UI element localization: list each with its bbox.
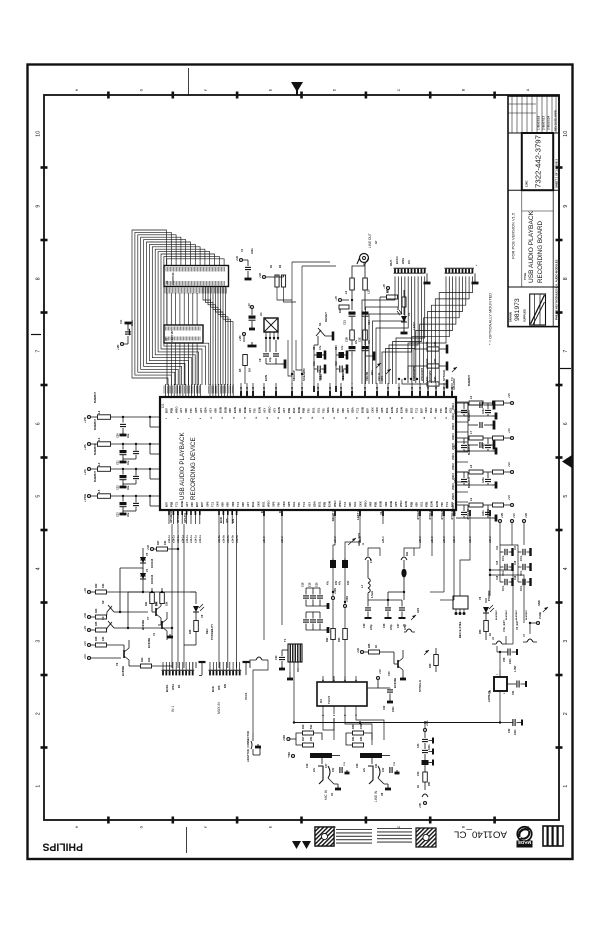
crystal load caps C8 C9 xyxy=(263,353,269,355)
svg-text:+VB1: +VB1 xyxy=(334,587,337,594)
svg-text:+V2: +V2 xyxy=(83,625,87,630)
regulator to bus xyxy=(499,691,501,723)
svg-text:C34: C34 xyxy=(417,771,420,776)
svg-text:X08: X08 xyxy=(214,408,218,413)
header X3 ground xyxy=(245,662,247,675)
terminal +VC bottom xyxy=(87,656,90,659)
svg-text:DG1: DG1 xyxy=(251,501,255,507)
svg-text:GP1: GP1 xyxy=(381,375,384,381)
svg-text:GPS/WS1: GPS/WS1 xyxy=(176,510,180,523)
svg-text:10: 10 xyxy=(563,131,569,137)
svg-text:+V0: +V0 xyxy=(507,393,511,398)
svg-text:100n: 100n xyxy=(251,248,254,254)
ferrite bead on clock xyxy=(401,569,406,578)
svg-text:DG1: DG1 xyxy=(385,407,389,413)
svg-text:100n: 100n xyxy=(482,443,485,449)
svg-text:L4: L4 xyxy=(97,462,101,466)
svg-text:C28: C28 xyxy=(383,623,386,628)
svg-text:*VB1: *VB1 xyxy=(288,751,291,757)
svg-text:VDD3: VDD3 xyxy=(451,423,455,430)
svg-text:+VB1: +VB1 xyxy=(283,734,286,741)
svg-text:C32: C32 xyxy=(383,705,386,710)
svg-text:100n: 100n xyxy=(521,555,523,561)
svg-text:1: 1 xyxy=(563,785,569,788)
svg-text:V5: V5 xyxy=(145,552,149,556)
svg-text:100n: 100n xyxy=(342,374,345,380)
svg-text:s1h-1s: s1h-1s xyxy=(168,534,171,543)
svg-text:DOB: DOB xyxy=(361,407,365,413)
wires DN DP to USB xyxy=(263,524,265,560)
svg-text:12h-16: 12h-16 xyxy=(290,386,294,395)
svg-text:12h-16: 12h-16 xyxy=(316,386,320,395)
svg-text:T1: T1 xyxy=(283,638,287,642)
svg-text:GP5: GP5 xyxy=(287,501,291,507)
svg-text:C48: C48 xyxy=(514,560,517,565)
svg-text:SCL: SCL xyxy=(292,501,296,507)
svg-text:SP1: SP1 xyxy=(371,370,374,375)
decoupling cap C11 at U3 left xyxy=(120,342,123,345)
terminal +VC with resistor R38 xyxy=(87,643,90,646)
output LC filter block 1 with inductor and caps xyxy=(456,402,468,404)
svg-text:CLK: CLK xyxy=(379,509,383,515)
IC U1 bottom single pins xyxy=(263,510,265,524)
line out coupling network xyxy=(352,263,364,279)
GPA_WS arrow label xyxy=(348,538,356,545)
svg-text:V4: V4 xyxy=(152,632,156,636)
svg-text:BLM2B07: BLM2B07 xyxy=(94,418,97,430)
svg-text:CKX: CKX xyxy=(370,407,374,413)
svg-text:SDA: SDA xyxy=(326,407,330,413)
svg-text:R51: R51 xyxy=(428,781,431,786)
svg-text:X08: X08 xyxy=(221,502,225,507)
svg-text:LEFT IN: LEFT IN xyxy=(356,509,360,520)
svg-text:C12: C12 xyxy=(335,361,338,366)
svg-text:BLM2B07: BLM2B07 xyxy=(526,609,528,620)
terminal +VD near crystal xyxy=(242,332,245,335)
svg-text:51K: 51K xyxy=(310,724,313,729)
title block revision table xyxy=(508,132,559,134)
svg-text:MUX IN: MUX IN xyxy=(217,702,221,714)
svg-text:P2B: P2B xyxy=(287,408,291,413)
svg-text:TC1: TC1 xyxy=(236,501,240,507)
svg-text:X08: X08 xyxy=(226,502,230,507)
svg-text:P2B: P2B xyxy=(302,408,306,413)
decoupling cap grid C44-C49 xyxy=(500,551,504,553)
switch S2 xyxy=(107,606,112,612)
svg-text:s1h-1s: s1h-1s xyxy=(199,534,202,543)
svg-text:A1Y: A1Y xyxy=(185,502,189,507)
net arrows SP1 GP1 xyxy=(376,363,381,368)
svg-text:12h-16: 12h-16 xyxy=(239,386,243,395)
wires crystal to U1 xyxy=(291,262,293,384)
centre marker top triangle xyxy=(291,82,303,92)
svg-text:R12: R12 xyxy=(426,341,429,346)
svg-text:+V0: +V0 xyxy=(378,669,382,674)
svg-text:Y06: Y06 xyxy=(440,502,444,507)
svg-text:7322-442-3797: 7322-442-3797 xyxy=(534,135,543,188)
terminals +VB1 near caps xyxy=(331,596,334,599)
svg-text:V7: V7 xyxy=(146,616,150,620)
svg-text:10K: 10K xyxy=(434,341,437,346)
output LC filter block 4 with inductor and caps xyxy=(456,504,468,506)
svg-text:12NC: 12NC xyxy=(525,180,529,187)
IC right side power decoupling caps xyxy=(467,401,469,403)
svg-text:L3: L3 xyxy=(97,437,101,441)
svg-text:TC1: TC1 xyxy=(175,501,179,507)
svg-text:WS: WS xyxy=(225,518,229,523)
svg-text:C20: C20 xyxy=(356,763,359,768)
IC U4 top pins xyxy=(322,676,324,682)
jumper J6 loop A xyxy=(368,548,380,556)
svg-text:A: A xyxy=(361,543,365,545)
svg-text:22K: 22K xyxy=(310,736,313,741)
wire transformer to bus xyxy=(293,680,295,723)
svg-text:1M: 1M xyxy=(248,368,252,372)
svg-text:100K: 100K xyxy=(360,723,363,729)
svg-text:100n: 100n xyxy=(320,374,323,380)
transistor V4 BC848B xyxy=(161,621,163,629)
voltage regulator U5 xyxy=(494,677,507,691)
instruction text block 2 rotated 180 xyxy=(377,828,412,830)
GND arrow label xyxy=(543,607,548,612)
zone ticks left edge xyxy=(41,166,48,169)
svg-text:B07: B07 xyxy=(165,408,169,413)
svg-text:12h-16: 12h-16 xyxy=(350,386,354,395)
grounds for cap column xyxy=(429,740,434,742)
svg-text:2: 2 xyxy=(563,712,569,715)
recycle logo stamp xyxy=(517,827,531,841)
svg-text:DOB: DOB xyxy=(223,407,227,413)
svg-text:A1Y: A1Y xyxy=(248,408,252,413)
svg-text:7: 7 xyxy=(563,350,569,353)
svg-text:R16: R16 xyxy=(302,724,305,729)
svg-text:1: 1 xyxy=(36,785,42,788)
title block separators xyxy=(508,189,559,191)
svg-text:R21: R21 xyxy=(352,736,355,741)
pull resistors R12 R13 R14 to ground xyxy=(420,348,427,350)
IC U1 top pin stubs cluster 2 xyxy=(209,384,211,397)
svg-text:GP5: GP5 xyxy=(380,407,384,413)
svg-text:WSO: WSO xyxy=(399,501,403,507)
svg-text:DN: DN xyxy=(260,509,264,513)
svg-text:DN: DN xyxy=(223,684,227,688)
svg-text:1 96/03/19: 1 96/03/19 xyxy=(537,115,541,130)
svg-text:G: G xyxy=(140,825,144,828)
svg-text:+VD: +VD xyxy=(525,513,528,518)
svg-text:R26: R26 xyxy=(429,663,432,668)
svg-text:MIC IN: MIC IN xyxy=(324,789,328,800)
svg-text:GP5: GP5 xyxy=(331,407,335,413)
svg-text:12h-16: 12h-16 xyxy=(426,386,430,395)
svg-text:TC1: TC1 xyxy=(343,501,347,507)
svg-text:U2: U2 xyxy=(165,280,169,284)
svg-text:WSO: WSO xyxy=(338,501,342,507)
resistor pair R1 R2 right of U2 xyxy=(262,275,265,278)
header X3 MUX IN xyxy=(209,662,211,670)
IC U2 bottom hash stubs xyxy=(164,288,166,294)
svg-text:47u: 47u xyxy=(341,345,344,350)
svg-text:EON: EON xyxy=(400,407,404,413)
svg-text:X08: X08 xyxy=(348,502,352,507)
svg-text:12h-16: 12h-16 xyxy=(339,386,343,395)
document number box 7322-442-3797 xyxy=(522,133,553,190)
caps C50 with ground xyxy=(507,649,509,656)
svg-text:5: 5 xyxy=(36,495,42,498)
svg-text:IN 1: IN 1 xyxy=(171,706,175,712)
svg-text:L2: L2 xyxy=(97,410,101,414)
svg-text:A1Y: A1Y xyxy=(263,408,267,413)
svg-text:A1Y: A1Y xyxy=(346,408,350,413)
svg-text:B07: B07 xyxy=(365,408,369,413)
svg-text:CKX: CKX xyxy=(424,407,428,413)
svg-text:+VD: +VD xyxy=(259,273,262,278)
svg-text:REC E-STEL: REC E-STEL xyxy=(458,621,462,638)
header X6 wires down to U1 xyxy=(408,276,446,383)
svg-text:+VDG: +VDG xyxy=(83,493,87,502)
svg-text:C27: C27 xyxy=(397,623,400,628)
LINE OUT jack X7 xyxy=(360,254,369,263)
svg-text:+VD: +VD xyxy=(116,345,120,350)
svg-text:TC1: TC1 xyxy=(210,501,214,507)
svg-text:L INT: L INT xyxy=(513,665,517,672)
svg-text:100n: 100n xyxy=(428,744,431,750)
svg-text:FOR PCB VERSION V1.5: FOR PCB VERSION V1.5 xyxy=(511,212,516,259)
svg-text:REC: REC xyxy=(205,628,209,634)
svg-text:DG1: DG1 xyxy=(261,501,265,507)
svg-text:C29: C29 xyxy=(363,623,366,628)
svg-text:C21: C21 xyxy=(375,763,378,768)
terminal +VB1 left of mic xyxy=(291,754,294,757)
svg-text:X08: X08 xyxy=(228,408,232,413)
svg-text:10u: 10u xyxy=(127,433,130,438)
svg-text:X7: X7 xyxy=(374,240,378,244)
svg-text:T05: T05 xyxy=(189,408,193,413)
svg-text:SUPPLIED: SUPPLIED xyxy=(523,309,527,322)
svg-text:EON: EON xyxy=(390,407,394,413)
svg-text:10u: 10u xyxy=(127,460,130,465)
svg-text:T05: T05 xyxy=(336,408,340,413)
svg-text:GP5: GP5 xyxy=(272,501,276,507)
svg-text:S2: S2 xyxy=(101,600,105,604)
svg-text:12h-16: 12h-16 xyxy=(418,386,422,395)
philips shield logo box xyxy=(530,294,546,325)
svg-text:R20: R20 xyxy=(352,724,355,729)
svg-text:BLM2B07: BLM2B07 xyxy=(468,409,471,421)
svg-text:L5: L5 xyxy=(97,489,101,493)
svg-text:SDA: SDA xyxy=(312,501,316,507)
svg-text:C10: C10 xyxy=(313,361,316,366)
svg-text:+VB: +VB xyxy=(501,513,504,518)
IC U2 latch 74HC574 xyxy=(164,266,229,287)
svg-text:10u: 10u xyxy=(127,485,130,490)
svg-text:BLM2B07: BLM2B07 xyxy=(506,609,508,620)
svg-text:47u: 47u xyxy=(327,580,330,585)
svg-text:AO1140_CL: AO1140_CL xyxy=(454,830,507,841)
resistor R44 1K2 xyxy=(129,665,140,667)
reset switch S1 xyxy=(316,330,321,336)
svg-text:DG1: DG1 xyxy=(429,407,433,413)
svg-text:VRF: VRF xyxy=(384,501,388,507)
svg-text:P2B: P2B xyxy=(374,502,378,507)
caps C18 C19 C22 column xyxy=(305,588,307,595)
svg-text:X08: X08 xyxy=(238,408,242,413)
svg-text:+V0: +V0 xyxy=(334,295,338,300)
svg-text:CKX: CKX xyxy=(282,501,286,507)
svg-text:XTAL2B: XTAL2B xyxy=(416,509,420,520)
svg-text:V8: V8 xyxy=(200,614,204,618)
svg-text:X08: X08 xyxy=(341,408,345,413)
svg-text:6: 6 xyxy=(36,422,42,425)
transformer T1 xyxy=(288,644,302,662)
header X6 i2s xyxy=(445,267,474,269)
svg-text:D1: D1 xyxy=(177,684,181,688)
svg-text:12h-16: 12h-16 xyxy=(375,386,379,395)
svg-text:100n: 100n xyxy=(521,570,523,576)
long analog bus wire xyxy=(294,722,500,724)
svg-text:TC1: TC1 xyxy=(445,501,449,507)
svg-text:A1Y: A1Y xyxy=(246,502,250,507)
IC U4 dual opamp xyxy=(317,682,367,706)
svg-text:B07: B07 xyxy=(419,408,423,413)
svg-text:SCL: SCL xyxy=(395,407,399,413)
header X5 wires down to U1 xyxy=(362,276,395,384)
svg-text:SDA/CP: SDA/CP xyxy=(292,370,296,381)
IC U3 mux 74HCT157 xyxy=(164,325,203,343)
transistor V9 BC858B xyxy=(123,650,125,658)
svg-text:10K: 10K xyxy=(102,636,105,641)
terminal +V0L and cap column right of line in xyxy=(423,728,426,731)
svg-text:CKX: CKX xyxy=(256,501,260,507)
svg-text:s2h-3: s2h-3 xyxy=(382,536,385,543)
MIC electrolytic caps C16 C17 xyxy=(310,753,332,758)
svg-text:1K: 1K xyxy=(489,633,492,636)
svg-text:s1h-1s: s1h-1s xyxy=(173,534,176,543)
svg-text:U4: U4 xyxy=(319,699,323,703)
svg-text:10K: 10K xyxy=(434,376,437,381)
diode V12 and terminal xyxy=(422,794,428,797)
svg-text:SDA: SDA xyxy=(204,407,208,413)
output LC filter block 2 with inductor and caps xyxy=(456,437,468,439)
svg-text:+VB: +VB xyxy=(419,803,422,808)
svg-text:SCL: SCL xyxy=(420,501,424,507)
IC U2 left vertical wires down to U3 xyxy=(166,293,168,325)
GP2 net arrow xyxy=(411,615,416,620)
svg-text:+VC: +VC xyxy=(83,641,87,646)
svg-text:12h-16: 12h-16 xyxy=(262,386,266,395)
svg-text:+VX: +VX xyxy=(83,469,87,475)
header X2 IN 1 xyxy=(162,662,164,670)
svg-text:s1h-5s: s1h-5s xyxy=(223,534,226,543)
svg-text:C43: C43 xyxy=(454,511,457,516)
transformer pins xyxy=(289,662,291,672)
svg-text:C24: C24 xyxy=(275,655,278,660)
svg-text:V6: V6 xyxy=(478,596,482,600)
svg-text:F: F xyxy=(204,89,208,91)
terminal VU2B xyxy=(536,621,539,624)
svg-text:SYSCLK: SYSCLK xyxy=(442,370,446,381)
resistor R3 horizontal xyxy=(387,295,398,299)
svg-text:P2B: P2B xyxy=(169,408,173,413)
LINE electrolytic caps C20 C21 xyxy=(360,753,382,758)
svg-text:XTAL1B: XTAL1B xyxy=(428,509,432,520)
svg-text:s1h-1s: s1h-1s xyxy=(177,534,180,543)
svg-text:TL072: TL072 xyxy=(327,695,331,704)
svg-text:RIGHT IN: RIGHT IN xyxy=(331,509,335,521)
wires diodes to bus xyxy=(142,548,144,552)
svg-text:100n: 100n xyxy=(482,477,485,483)
svg-text:100n: 100n xyxy=(503,585,505,591)
svg-text:12h-16: 12h-16 xyxy=(442,386,446,395)
IC U4 bottom pins xyxy=(322,706,324,712)
svg-text:6: 6 xyxy=(563,422,569,425)
svg-text:GP5: GP5 xyxy=(394,501,398,507)
svg-text:BLM2B07: BLM2B07 xyxy=(516,609,518,620)
svg-text:10V: 10V xyxy=(382,767,385,772)
border inner frame xyxy=(44,95,559,820)
svg-text:TC1: TC1 xyxy=(302,501,306,507)
fold mark right xyxy=(560,368,571,370)
svg-text:100n: 100n xyxy=(514,729,517,735)
svg-text:SHEET 1 OF 1 ISSUE 3: SHEET 1 OF 1 ISSUE 3 xyxy=(555,159,559,188)
svg-text:C47: C47 xyxy=(514,545,517,550)
svg-text:1K2: 1K2 xyxy=(148,657,151,662)
svg-text:+V0: +V0 xyxy=(382,283,386,288)
svg-text:A1Y: A1Y xyxy=(199,408,203,413)
svg-text:VDD5: VDD5 xyxy=(451,493,455,500)
border outer frame xyxy=(28,65,573,860)
svg-text:12h-16: 12h-16 xyxy=(386,386,390,395)
GPLAB10 arrow xyxy=(452,367,457,372)
svg-text:R32: R32 xyxy=(95,583,98,588)
svg-text:VDD1: VDD1 xyxy=(451,403,455,410)
svg-text:47u: 47u xyxy=(319,345,322,350)
terminal +V0 header area xyxy=(386,286,389,289)
cap C7 at stub area xyxy=(250,305,253,308)
svg-text:VDD4: VDD4 xyxy=(451,433,455,440)
svg-text:X08: X08 xyxy=(184,408,188,413)
cap C3 and +VD terminal right of U2 xyxy=(239,258,242,261)
zone ticks bottom edge xyxy=(107,817,110,824)
inductor L4 xyxy=(367,572,369,578)
svg-text:981973: 981973 xyxy=(514,298,521,321)
zone ticks right edge xyxy=(556,166,563,169)
svg-text:RECORDING DEVICE: RECORDING DEVICE xyxy=(190,437,197,500)
svg-text:C51: C51 xyxy=(512,690,515,695)
connector X9 REC E-STEL xyxy=(453,596,468,609)
svg-text:EON: EON xyxy=(277,407,281,413)
svg-text:CKX: CKX xyxy=(216,501,220,507)
resistor R45 xyxy=(194,621,199,632)
svg-text:EON: EON xyxy=(264,375,268,381)
svg-text:C21: C21 xyxy=(117,460,120,465)
svg-text:C23: C23 xyxy=(117,512,120,517)
svg-text:LED2: LED2 xyxy=(412,322,416,330)
MIC IN bias resistors R16 R17 xyxy=(303,731,314,735)
svg-text:WS1: WS1 xyxy=(171,683,175,690)
svg-text:T05: T05 xyxy=(321,408,325,413)
svg-text:C16: C16 xyxy=(306,763,309,768)
caps C29 C28 C27 row with grounds xyxy=(367,600,369,607)
svg-text:X1: X1 xyxy=(259,312,263,316)
svg-text:10: 10 xyxy=(36,131,42,137)
svg-text:DOB: DOB xyxy=(180,501,184,507)
svg-text:100n: 100n xyxy=(521,585,523,591)
jumper J7 xyxy=(527,639,533,642)
svg-text:V10: V10 xyxy=(387,671,391,676)
svg-text:s1h-1s: s1h-1s xyxy=(190,534,193,543)
svg-text:SYSCLK: SYSCLK xyxy=(418,679,422,692)
svg-text:BCK: BCK xyxy=(219,517,223,523)
